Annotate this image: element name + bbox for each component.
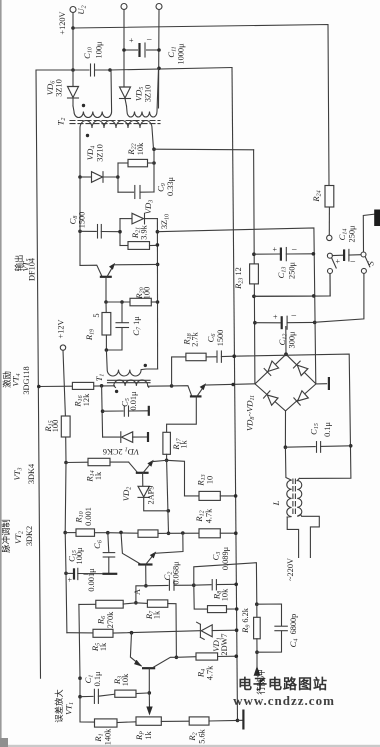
node C13 right [312,252,316,256]
resistor R12 [199,529,220,538]
wire bus x254 down to bridge left [254,150,255,384]
node R6 R7 [134,601,138,605]
resistor R10 [65,532,76,534]
svg-text:270k: 270k [106,611,115,628]
ground bar bridge right [328,377,330,390]
transformer T2 secondary winding [80,121,154,177]
bridge diode bottom-left [264,391,278,405]
wire VT5 emitter to node [114,263,158,265]
phase dot winding 1 [82,104,85,107]
wire long vertical bus x232 down [232,68,238,721]
svg-text:1k: 1k [153,610,162,619]
svg-text:1500: 1500 [78,212,87,229]
transformer T2 core dashed [70,120,160,122]
node C15 100u left [64,572,68,576]
capacitor C14 [332,254,343,256]
input arrow line pulse [256,652,258,675]
capacitor C12 [255,322,280,324]
capacitor C4 0.001 [108,533,109,553]
svg-text:~220V: ~220V [286,558,295,581]
diode VD4 [80,176,92,178]
resistor R21 [120,245,128,247]
wire VT4 emitter to bridge left [205,384,255,385]
wire from +120V terminal down [72,13,74,71]
svg-text:100μ: 100μ [75,547,84,564]
ground bar bottom [238,719,243,721]
svg-text:1k: 1k [180,440,189,449]
wire switch right bottom down to C12 right [315,274,364,323]
transistor VT1 emitter wire [130,633,141,666]
svg-text:脉冲调制: 脉冲调制 [1,519,11,553]
node junction top rail [71,26,75,30]
transistor VT2 emitter [146,553,154,563]
node C8 left x80 [78,230,82,234]
node R4 right bus [235,654,239,658]
zener diode VD1 2DW7 [199,624,201,637]
switch S right lever [365,257,370,267]
wire secondary right down to C9 [153,149,155,192]
capacitor C10 plates [90,64,92,76]
wire x102 down from T1 [102,386,103,437]
transistor VT5 base wire [80,265,102,276]
svg-text:0.1μ: 0.1μ [323,422,332,437]
node C2 C3 R8 [192,583,196,587]
svg-text:300μ: 300μ [288,331,297,348]
node y296 left [252,295,256,299]
node C12 right [313,321,317,325]
wire y533 chain [108,532,138,535]
capacitor C11 plates [138,43,140,57]
node R12 right bus [234,531,238,535]
capacitor C15 0.1u [285,446,315,449]
resistor R7 [136,602,148,605]
phase dot T1 secondary [115,390,118,393]
resistor R4 [176,656,196,659]
node VD4 cathode [116,175,120,179]
wire terminal2 down [123,10,125,87]
capacitor C11 wire [124,49,138,51]
node R9 bottom input [255,650,259,654]
svg-text:C7 1μ: C7 1μ [131,316,143,336]
svg-text:www.cndzz.com: www.cndzz.com [233,693,335,708]
node C3 right bus [234,583,238,587]
resistor R16 [72,382,93,389]
wire bridge top to C12 [285,327,287,355]
node VT5 collector [104,300,108,304]
transistor VT2 base wire [121,532,140,563]
ground bar C5 [148,406,150,416]
resistor R13 [185,495,200,497]
wire R6 left down to C1 node [79,604,80,678]
transistor VT3 emitter [144,462,153,473]
svg-text:–: – [291,310,297,320]
svg-text:10k: 10k [136,142,145,155]
terminal switch left bottom [328,269,333,274]
wire node A to R6/R7 [136,586,146,603]
node C11 left [122,48,126,52]
resistor R23 [250,264,259,284]
transistor VT3 collector [142,473,144,486]
terminal 3 [156,4,162,10]
svg-text:1000μ: 1000μ [177,43,186,65]
transistor VT1 bar [142,667,155,669]
bridge rectifier VD8-VD11 frame [255,354,316,411]
capacitor C4 6800p branch [257,604,282,626]
inductor L left winding [285,447,291,517]
wire bridge right to ground [316,383,327,385]
capacitor C1 [80,695,93,697]
node VT2 collector A [144,584,148,588]
terminal R24 bottom [327,235,332,240]
node VT1 emitter rail [130,631,134,635]
node R20 right [156,300,160,304]
svg-text:+12V: +12V [57,320,66,339]
mains plug right prong [301,514,320,557]
wire x80 down [79,678,81,697]
svg-text:–: – [350,256,356,266]
phase dot T1 primary [144,364,147,367]
svg-text:5: 5 [92,313,101,317]
resistor R3 [115,690,136,697]
svg-text:1k: 1k [94,471,103,480]
transistor VT1 base [148,669,150,693]
svg-text:100: 100 [51,420,60,432]
ground bar VD1 [147,432,149,442]
node R8 right bus [235,607,239,611]
wire x118 R22-C9 [117,163,119,192]
transistor VT5 bar [100,276,112,278]
wire long rail y229 to right corner [157,228,315,384]
node T1 left branch [100,384,104,388]
svg-text:0.33μ: 0.33μ [166,176,175,196]
svg-text:0.001: 0.001 [84,507,93,526]
svg-text:+: + [129,36,134,45]
node bottom bus [236,719,240,723]
node secondary right y149 [152,147,156,151]
resistor R9 [256,604,258,617]
terminal switch right top [361,252,366,257]
capacitor C15 100u [66,572,73,574]
resistor R5 [93,629,113,637]
node VT1 collector R4 [175,656,179,660]
svg-text:0.089μ: 0.089μ [221,546,230,570]
resistor R1 [95,719,118,727]
bridge diode top-right [293,361,307,375]
transistor VT3 bar [136,472,149,474]
node C1 left [78,695,82,699]
ground bar C4/C15 [102,573,117,575]
wire x80 secondary-left down [79,177,81,231]
transistor VT5 emitter [107,265,114,276]
node VD2 to vertical [167,509,171,513]
transistor VT4 collector [167,397,197,432]
node R10 right C4 [106,531,110,535]
node R9 top [255,602,259,606]
terminal U2 +120V [70,7,76,13]
svg-text:5.6k: 5.6k [198,728,207,743]
transistor VT2 collector [145,565,147,586]
inductor L right winding [297,478,302,516]
switch S left lever [332,258,337,268]
node VT4 emitter bus [231,383,235,387]
wire x157.5 down to T1 [156,219,158,369]
wire long y355 C6 to L-right [234,354,351,478]
phase dot secondary [86,134,89,137]
resistor R18 [186,353,206,361]
svg-text:2DW7: 2DW7 [220,633,229,655]
node VT2 emitter tap [181,531,185,535]
svg-text:VD1 2CK6: VD1 2CK6 [103,446,139,458]
svg-text:1500: 1500 [216,330,225,347]
node VT1 base [148,691,152,695]
potentiometer Rp wiper arrow [148,693,150,711]
resistor R2 [189,717,209,725]
scan edge artifacts [0,0,2,747]
capacitor C3 [194,584,211,587]
node C12 left [253,321,257,325]
node R15 bottom [64,461,68,465]
svg-text:250μ: 250μ [288,262,297,279]
terminal switch right bottom [361,268,366,273]
bridge diode top-left [264,361,278,375]
svg-text:0.001μ: 0.001μ [87,568,96,592]
node C15 right [349,444,353,448]
capacitor C6 [216,351,218,362]
node bridge top [284,352,288,356]
wire y68 bus to x232 [110,68,232,71]
transformer T1 secondary [114,380,149,388]
diode VD2 2AP9 [138,486,149,497]
capacitor C5 [103,410,123,412]
wire switch left bottom down to y296 [254,274,330,297]
wire R18 up and over [172,357,186,386]
wire node to R14 [66,461,88,463]
capacitor C8 [80,230,96,232]
resistor R14 [88,458,110,465]
wire x65 down from R15 node [64,463,67,533]
svg-text:100μ: 100μ [95,41,104,58]
wire y149 to right bus corner [154,148,254,151]
wire +12V down through to R15 [63,350,65,416]
svg-text:0.1μ: 0.1μ [93,671,102,686]
transformer T2 primary winding 2 [127,68,159,117]
wire x80 down to R1 [80,697,95,722]
node x110 y70 [108,68,112,72]
svg-text:4.7k: 4.7k [205,508,214,523]
wire T1 secondary left to R16 [94,385,115,387]
svg-text:R9 6.2k: R9 6.2k [240,607,252,634]
node C11 right [157,48,161,52]
svg-text:12k: 12k [82,393,91,406]
resistor R17 [163,432,171,454]
svg-text:+: + [273,313,278,322]
node R19 C7 bottom [105,348,109,352]
node C13 left [252,252,256,256]
transformer T1 primary [106,350,157,376]
wire bridge bottom down [284,411,286,447]
wire R17 node down [167,460,169,533]
resistor R24 [325,186,334,208]
wire terminal3 down [158,10,161,109]
svg-text:10k: 10k [221,588,230,601]
svg-text:0.01μ: 0.01μ [129,391,138,411]
node C15 left [284,445,288,449]
svg-text:3DG118: 3DG118 [22,366,31,394]
transistor VT2 bar [138,563,152,565]
svg-text:A: A [133,589,142,595]
resistor R11 [138,530,158,537]
node secondary right y163 [152,161,156,165]
svg-text:+120V: +120V [58,11,67,34]
transistor VT4 emitter [197,385,204,396]
transistor VT4 base wire [172,386,192,396]
node VD3 rail left [118,230,122,234]
svg-text:R23 12: R23 12 [233,267,245,290]
svg-text:+: + [336,257,341,266]
node VD4 anode x80 [78,175,82,179]
transistor VT3 base diag [129,462,137,472]
capacitor C2 [146,584,168,586]
bridge diode bottom-right [294,391,308,405]
node zener right bus [235,628,239,632]
mains plug left prong [287,517,298,558]
wire rail y633 left [67,632,93,634]
svg-text:L: L [271,500,281,506]
node C7 top [120,300,124,304]
node x73 y70 [71,68,75,72]
svg-text:3.9k: 3.9k [140,224,149,239]
svg-text:4.7k: 4.7k [206,665,215,680]
resistor R20 [106,301,130,303]
node left bus R16 [37,385,41,389]
terminal +12V [60,345,65,350]
wire node up over to R9 [194,563,257,605]
svg-text:250μ: 250μ [348,225,357,242]
svg-text:DF104: DF104 [28,257,37,281]
terminal 2 [121,4,127,10]
diode VD3 [120,218,132,220]
svg-text:1k: 1k [99,642,108,651]
wire y296 cross link [254,295,330,297]
svg-text:3Z10: 3Z10 [144,85,153,103]
svg-text:140k: 140k [104,728,113,745]
svg-text:100: 100 [143,287,152,299]
node C1 R6 left bus [78,676,82,680]
svg-text:2AP9: 2AP9 [147,486,156,505]
resistor R6 [79,603,96,605]
wire node to R13 branch [167,460,185,496]
svg-text:10k: 10k [121,673,130,686]
capacitor C13 [254,253,280,255]
node R11 R12 junction [167,532,171,536]
diode VD6 [72,70,74,86]
wire top rail to R24 [73,25,329,186]
svg-text:10: 10 [206,476,215,484]
capacitor C9 [118,191,134,193]
inductor L core dashed [292,479,294,517]
svg-text:S: S [366,261,376,266]
node R13 right bus [234,494,238,498]
node C5 branch [101,409,105,413]
node VT5 emitter rail [156,263,160,267]
VD3/R21 left link [119,219,121,246]
node y296 on right bus [312,294,316,298]
svg-text:C4 6800p: C4 6800p [288,614,300,648]
svg-text:3DK4: 3DK4 [27,463,36,484]
potentiometer Rp [136,717,161,725]
svg-text:0.068μ: 0.068μ [172,561,181,585]
resistor R19 [105,302,107,313]
node C6 right bus [232,354,236,358]
transistor VT4 bar [190,395,202,397]
capacitor C10 wires [73,69,89,71]
wire x66 down [64,533,67,574]
svg-text:–: – [146,34,152,44]
diode VD1 2CK6 [103,436,120,438]
node R10 left [63,531,67,535]
resistor R22 [148,162,155,164]
svg-text:误差放大: 误差放大 [54,689,64,723]
transformer T2 primary winding 1 [73,70,112,118]
svg-text:3Z10: 3Z10 [96,144,105,162]
capacitor C7 [121,302,123,322]
node VT3 emitter R17 [165,459,169,463]
wire left long vertical [36,70,73,678]
terminal switch left top [327,253,332,258]
svg-text:+: + [68,576,73,585]
node rail y231.7 [156,230,160,234]
wire switch right top to edge connector [363,214,374,252]
svg-text:–: – [291,244,297,254]
node VT2 base tap [119,531,123,535]
transistor VT5 collector [105,277,107,302]
transformer T1 core [108,379,151,381]
svg-text:+: + [273,245,278,254]
wire T1 secondary right to VT4 base [148,385,172,387]
resistor R15 [61,416,70,437]
edge connector black mark [374,210,380,227]
node R21 right [156,243,160,247]
svg-text:2.7k: 2.7k [191,331,200,346]
svg-text:1k: 1k [144,731,153,740]
svg-text:3Z10: 3Z10 [55,79,64,97]
node R18 branch [170,384,174,388]
svg-text:3DK2: 3DK2 [25,526,34,546]
transistor VT1 collector [153,657,176,667]
svg-text:电子电路图站: 电子电路图站 [238,676,328,693]
node x159 y68 [157,67,161,71]
resistor R8 [194,585,208,609]
diode VD5 [120,87,131,98]
